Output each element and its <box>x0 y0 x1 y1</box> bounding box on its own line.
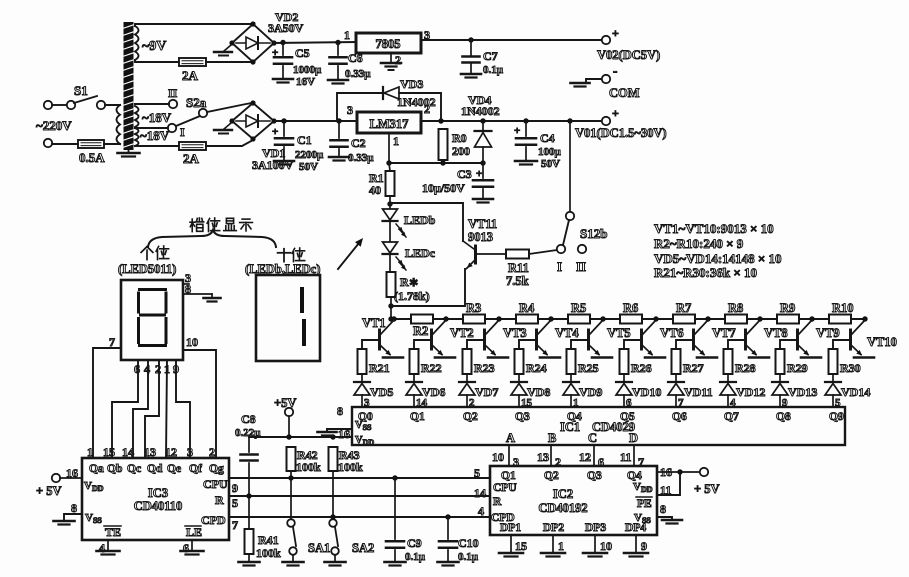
svg-text:6: 6 <box>183 541 189 555</box>
resistor R11 7.5k <box>506 250 529 259</box>
7-segment display DS2 <box>256 275 320 361</box>
transistor VT6 <box>640 330 643 349</box>
svg-text:B: B <box>548 431 556 445</box>
switch SA1 <box>287 519 295 527</box>
IC IC3 CD40110 <box>82 458 229 540</box>
transistor VT4 <box>535 330 538 349</box>
svg-text:13: 13 <box>537 450 549 464</box>
svg-text:Q9: Q9 <box>829 411 844 423</box>
diode VD14 <box>832 374 834 382</box>
svg-text:VT1~VT10:9013 × 10: VT1~VT10:9013 × 10 <box>654 221 774 236</box>
svg-text:50V: 50V <box>541 158 560 170</box>
node rail 8 <box>809 316 814 321</box>
svg-text:R∗: R∗ <box>400 275 419 289</box>
svg-text:1000μ: 1000μ <box>293 64 322 76</box>
svg-text:7: 7 <box>232 518 238 532</box>
svg-text:+: + <box>612 106 619 120</box>
wire A to IC2 <box>508 445 510 466</box>
svg-text:Qd: Qd <box>147 463 163 475</box>
capacitor C7 0.1u <box>470 40 472 55</box>
svg-text:DP4: DP4 <box>625 522 646 534</box>
svg-text:~18V: ~18V <box>142 110 172 125</box>
node <box>330 434 335 439</box>
svg-text:11: 11 <box>620 450 631 464</box>
node <box>388 316 393 321</box>
svg-text:+ 5V: + 5V <box>694 482 720 496</box>
node rail 9 <box>862 316 867 321</box>
regulator U1 7805 <box>356 33 421 53</box>
resistor R2 on rail <box>411 315 433 324</box>
svg-text:R27: R27 <box>683 361 704 375</box>
switch contact I <box>168 124 176 132</box>
node <box>389 196 391 204</box>
svg-text:Q1: Q1 <box>410 411 425 423</box>
resistor R24 <box>515 349 524 374</box>
svg-text:VT2: VT2 <box>450 326 474 340</box>
svg-text:~18V: ~18V <box>140 128 170 143</box>
svg-text:7: 7 <box>109 335 115 349</box>
svg-text:2200μ: 2200μ <box>295 149 324 161</box>
transistor VT2 <box>430 330 433 349</box>
transistor VT7 <box>692 330 695 349</box>
svg-text:R28: R28 <box>735 361 756 375</box>
svg-text:VT3: VT3 <box>503 326 527 340</box>
svg-text:4: 4 <box>478 504 484 518</box>
svg-text:Q3: Q3 <box>515 411 530 423</box>
svg-text:1: 1 <box>87 445 93 459</box>
node <box>567 118 572 123</box>
minus bar at VD1 <box>224 123 231 129</box>
terminal COM - <box>602 75 610 83</box>
svg-text:CPU: CPU <box>203 477 228 491</box>
svg-text:R22: R22 <box>421 361 442 375</box>
svg-text:100k: 100k <box>338 460 363 474</box>
svg-text:DP2: DP2 <box>543 522 564 534</box>
svg-text:0.22μ: 0.22μ <box>235 427 261 439</box>
label shi-wei (tens) <box>278 252 291 254</box>
svg-text:6: 6 <box>134 362 140 376</box>
svg-text:0.1μ: 0.1μ <box>483 64 504 76</box>
capacitor C4 100u/50V <box>525 121 527 136</box>
svg-text:V01(DC1.5~30V): V01(DC1.5~30V) <box>575 126 667 140</box>
svg-text:S2a: S2a <box>186 95 207 110</box>
svg-text:Q1: Q1 <box>501 470 516 482</box>
wire C to IC2 <box>593 445 595 466</box>
svg-text:~9V: ~9V <box>142 39 166 54</box>
svg-text:I: I <box>557 259 562 274</box>
svg-text:VD9: VD9 <box>579 385 602 399</box>
wire to S12b <box>529 250 557 254</box>
svg-text:14: 14 <box>122 445 134 459</box>
minus bar at VD2 <box>224 45 231 51</box>
svg-text:V02(DC5V): V02(DC5V) <box>597 48 660 62</box>
resistor R30 <box>829 349 838 374</box>
diode VD6 <box>413 374 415 382</box>
transformer secondary ~9V winding <box>135 26 139 60</box>
resistor R10 on rail <box>829 315 851 324</box>
wire CPU bus <box>229 477 490 479</box>
wire seg pin to IC3 pin 12 <box>166 360 167 458</box>
resistor R22 <box>410 349 419 374</box>
ground (transformer) <box>128 150 130 153</box>
svg-text:Q3: Q3 <box>587 470 602 482</box>
svg-text:SA2: SA2 <box>352 541 374 555</box>
AC input terminal upper <box>44 101 52 109</box>
svg-text:Q7: Q7 <box>724 411 739 423</box>
svg-text:4: 4 <box>99 541 105 555</box>
switch contact II <box>169 100 177 108</box>
IC2 DP1 pin 15 ground <box>510 535 512 553</box>
svg-text:I: I <box>180 125 185 139</box>
node <box>480 160 485 165</box>
switch S2a <box>199 109 207 117</box>
node rail 5 <box>653 316 658 321</box>
svg-text:8: 8 <box>660 502 666 516</box>
svg-text:VT5: VT5 <box>607 326 631 340</box>
svg-text:R29: R29 <box>787 361 808 375</box>
svg-text:VD12: VD12 <box>736 385 765 399</box>
svg-text:-: - <box>613 63 617 78</box>
svg-text:Qe: Qe <box>167 463 181 475</box>
svg-text:II: II <box>576 259 586 274</box>
svg-text:Q6: Q6 <box>672 411 687 423</box>
diode VD8 <box>518 374 520 382</box>
wire LM317 output <box>421 120 602 122</box>
transistor VT5 <box>587 330 590 349</box>
svg-text:R2~R10:240 × 9: R2~R10:240 × 9 <box>654 236 744 251</box>
svg-text:II: II <box>168 86 178 100</box>
capacitor C9 0.1u <box>392 475 397 480</box>
switch S1 <box>67 101 75 109</box>
pin 7 wire of DS1 <box>93 348 121 458</box>
svg-text:10: 10 <box>186 335 198 349</box>
pin 3 of DS1 <box>183 283 189 285</box>
node rail 0 <box>391 316 396 321</box>
svg-text:R5: R5 <box>571 301 586 315</box>
svg-text:R2: R2 <box>413 324 428 338</box>
svg-text:10: 10 <box>492 450 504 464</box>
fuse 2A (lower) <box>179 142 206 150</box>
svg-text:15: 15 <box>103 445 115 459</box>
IC2 DP3 pin 10 ground <box>594 535 596 553</box>
svg-text:+: + <box>272 126 278 138</box>
resistor R9 on rail <box>777 315 799 324</box>
resistor R0 200 <box>439 129 448 160</box>
svg-text:Q5: Q5 <box>620 411 635 423</box>
resistor R28 <box>724 349 733 374</box>
node <box>335 40 340 45</box>
terminal V01 + <box>602 117 610 125</box>
svg-text:Qb: Qb <box>107 463 122 475</box>
svg-text:10: 10 <box>600 539 612 553</box>
wire 5V output <box>421 39 602 41</box>
capacitor C6 0.33u <box>337 42 339 55</box>
svg-text:VD14: VD14 <box>841 385 870 399</box>
svg-text:Q8: Q8 <box>776 411 791 423</box>
transistor VT9 <box>796 330 799 349</box>
fuse 2A (upper) <box>179 58 206 66</box>
capacitor C10 0.1u <box>445 514 450 519</box>
svg-text:D: D <box>629 431 638 445</box>
svg-text:R9: R9 <box>780 301 795 315</box>
resistor R* <box>387 272 396 297</box>
svg-text:0.5A: 0.5A <box>79 150 105 165</box>
svg-text:R0: R0 <box>452 131 467 145</box>
svg-text:Q2: Q2 <box>544 470 559 482</box>
wire R bus <box>229 495 490 497</box>
svg-text:100μ: 100μ <box>538 146 562 158</box>
pin 2 ground of 7805 <box>390 53 392 62</box>
node <box>468 37 473 42</box>
svg-text:R11: R11 <box>508 261 529 275</box>
svg-text:LM317: LM317 <box>370 117 409 131</box>
resistor R26 <box>620 349 629 374</box>
svg-text:0.33μ: 0.33μ <box>348 152 374 164</box>
transformer primary winding <box>117 105 121 144</box>
svg-text:SA1: SA1 <box>308 541 330 555</box>
diode VD7 <box>466 374 468 382</box>
pin 8 of DS1 to ground <box>183 293 212 295</box>
diode VD4 1N4002 <box>482 121 484 131</box>
svg-text:16V: 16V <box>296 76 315 88</box>
node <box>440 160 445 165</box>
svg-text:R3: R3 <box>466 301 481 315</box>
svg-text:VD3: VD3 <box>400 77 423 91</box>
+5V terminal for IC3 <box>52 474 60 482</box>
svg-text:LEDc: LEDc <box>405 246 436 260</box>
svg-text:3A50V: 3A50V <box>268 21 304 35</box>
capacitor C1 2200u/50V <box>283 121 285 136</box>
node rail 4 <box>600 316 605 321</box>
resistor R25 <box>567 349 576 374</box>
svg-text:VT1: VT1 <box>362 316 386 330</box>
svg-text:200: 200 <box>452 144 470 158</box>
wire <box>52 143 78 145</box>
arrow pointer <box>338 243 359 269</box>
svg-text:12: 12 <box>579 450 591 464</box>
wire seg pin to IC3 pin 15 <box>112 360 138 458</box>
node <box>523 118 528 123</box>
svg-text:5: 5 <box>474 466 480 480</box>
pin 1 of LM317 (adj) <box>388 133 390 163</box>
svg-text:CD40110: CD40110 <box>134 499 183 513</box>
svg-text:+: + <box>514 125 520 137</box>
svg-text:VT10: VT10 <box>867 335 897 349</box>
IC2 DP2 pin 1 ground <box>552 535 554 553</box>
svg-text:13: 13 <box>144 445 156 459</box>
resistor R23 <box>463 349 472 374</box>
pin 10 wire of DS1 <box>183 350 216 458</box>
wire CPD bus <box>229 516 490 518</box>
svg-text:+: + <box>612 26 619 40</box>
resistor R42 100k <box>287 447 296 471</box>
svg-text:R30: R30 <box>840 361 861 375</box>
wire adj line <box>389 162 483 164</box>
svg-text:9: 9 <box>641 539 647 553</box>
diode VD3 1N4002 <box>337 93 383 121</box>
resistor R41 100k <box>245 529 254 554</box>
svg-text:+: + <box>476 168 482 180</box>
svg-text:S12b: S12b <box>580 226 607 241</box>
node rail 7 <box>757 316 762 321</box>
svg-text:15: 15 <box>515 539 527 553</box>
svg-text:R4: R4 <box>519 301 535 315</box>
wire <box>105 104 120 106</box>
7-segment display DS1 <box>121 280 183 360</box>
svg-text:COM: COM <box>609 86 640 100</box>
node <box>281 118 286 123</box>
svg-text:R21~R30:36k × 10: R21~R30:36k × 10 <box>654 265 757 280</box>
transistor VT8 <box>744 330 747 349</box>
svg-text:2A: 2A <box>182 68 199 83</box>
LED LEDc <box>383 242 398 253</box>
wire seg pin to IC3 pin 3 <box>176 360 190 458</box>
svg-text:5: 5 <box>232 496 238 510</box>
svg-text:C5: C5 <box>295 46 310 60</box>
svg-text:DP1: DP1 <box>500 522 521 534</box>
svg-text:7805: 7805 <box>376 37 401 51</box>
svg-text:1N4002: 1N4002 <box>397 95 436 109</box>
wire <box>135 127 168 129</box>
node <box>386 160 391 165</box>
svg-text:~220V: ~220V <box>36 118 72 133</box>
resistor R4 on rail <box>516 315 538 324</box>
LED LEDb <box>389 204 391 209</box>
svg-text:12: 12 <box>165 445 177 459</box>
node rail 6 <box>705 316 710 321</box>
diode VD11 <box>675 374 677 382</box>
svg-text:TE: TE <box>105 525 121 539</box>
bridge rectifier VD2 <box>232 24 274 62</box>
resistor R5 on rail <box>568 315 590 324</box>
resistor R29 <box>776 349 785 374</box>
svg-text:CD40192: CD40192 <box>538 501 587 515</box>
svg-text:(LED5011): (LED5011) <box>118 262 176 276</box>
svg-text:R8: R8 <box>728 301 743 315</box>
svg-text:R21: R21 <box>369 361 390 375</box>
svg-text:C4: C4 <box>540 131 555 145</box>
wire 18V return <box>135 145 179 147</box>
transformer secondary ~18V winding 2 <box>135 128 139 146</box>
resistor R8 on rail <box>725 315 747 324</box>
node <box>438 118 443 123</box>
wire S2a to VD1 <box>207 103 252 112</box>
svg-text:PE: PE <box>637 498 652 510</box>
svg-text:R6: R6 <box>623 301 638 315</box>
diode VD13 <box>779 374 781 382</box>
svg-text:0.1μ: 0.1μ <box>405 551 426 563</box>
IC IC1 CD4029 <box>352 407 845 445</box>
wire to VD2 top <box>135 24 251 26</box>
node <box>336 118 341 123</box>
svg-text:C9: C9 <box>407 536 422 550</box>
diode VD10 <box>623 374 625 382</box>
svg-text:C2: C2 <box>351 136 366 150</box>
node rail 1 <box>443 316 448 321</box>
svg-text:2: 2 <box>395 53 401 67</box>
resistor R27 <box>672 349 681 374</box>
svg-text:2: 2 <box>209 445 215 459</box>
svg-text:9: 9 <box>232 481 238 495</box>
svg-text:2: 2 <box>155 362 161 376</box>
wire <box>52 104 66 106</box>
wire VT11 emitter return <box>391 269 465 306</box>
terminal V02 + <box>602 36 610 44</box>
wire <box>390 297 392 319</box>
node rail 2 <box>496 316 501 321</box>
resistor R1 40 <box>389 163 390 171</box>
capacitor C3 10u/50V <box>482 163 484 178</box>
node <box>288 475 293 480</box>
svg-text:2A: 2A <box>183 151 200 166</box>
svg-text:40: 40 <box>369 183 381 197</box>
resistor R6 on rail <box>620 315 642 324</box>
wire 9V return to fuse <box>135 60 179 62</box>
svg-text:VT11: VT11 <box>468 217 497 231</box>
svg-text:100k: 100k <box>296 460 321 474</box>
wire <box>104 143 120 145</box>
svg-text:7.5k: 7.5k <box>506 274 529 288</box>
IC2 DP4 pin 9 ground <box>635 535 637 553</box>
svg-text:VD5~VD14:14148 × 10: VD5~VD14:14148 × 10 <box>654 251 782 266</box>
wire collector rail <box>391 318 865 320</box>
svg-text:14: 14 <box>474 486 486 500</box>
COM ground <box>586 79 601 83</box>
svg-text:8: 8 <box>337 404 343 418</box>
svg-text:Qg: Qg <box>209 463 224 475</box>
svg-text:R: R <box>493 496 502 508</box>
svg-text:R25: R25 <box>578 361 599 375</box>
svg-text:0.1μ: 0.1μ <box>458 551 479 563</box>
svg-text:VD5: VD5 <box>370 385 393 399</box>
+5V rail <box>249 436 352 438</box>
svg-text:R23: R23 <box>474 361 495 375</box>
svg-text:CPD: CPD <box>201 513 226 527</box>
node <box>330 514 335 519</box>
svg-text:VT6: VT6 <box>660 326 684 340</box>
wire <box>206 140 253 146</box>
svg-text:R: R <box>215 493 224 507</box>
svg-text:R24: R24 <box>526 361 547 375</box>
svg-text:Qa: Qa <box>89 463 104 475</box>
wire D to IC2 <box>633 445 635 466</box>
svg-text:R41: R41 <box>258 533 279 547</box>
svg-text:50V: 50V <box>299 161 318 173</box>
regulator U2 LM317 <box>357 112 421 133</box>
transistor VT11 9013 <box>463 241 474 249</box>
svg-text:VT8: VT8 <box>764 326 788 340</box>
svg-text:C3: C3 <box>457 167 472 181</box>
svg-text:C8: C8 <box>241 412 256 426</box>
resistor R21 <box>358 349 367 374</box>
transformer secondary ~18V winding 1 <box>135 106 139 127</box>
svg-text:A: A <box>506 431 515 445</box>
transistor VT10 <box>849 330 852 349</box>
label dang-wei-xian-shi <box>191 219 193 232</box>
svg-text:VD13: VD13 <box>788 385 817 399</box>
wire <box>206 61 253 63</box>
svg-text:VT7: VT7 <box>712 326 736 340</box>
svg-text:8: 8 <box>185 282 191 296</box>
node <box>480 118 485 123</box>
svg-text:CPU: CPU <box>493 482 517 494</box>
svg-text:DP3: DP3 <box>585 522 606 534</box>
svg-text:(1.78k): (1.78k) <box>394 289 430 303</box>
svg-text:1: 1 <box>393 134 399 148</box>
resistor R3 on rail <box>463 315 485 324</box>
diode VD9 <box>570 374 572 382</box>
bridge rectifier VD1 <box>232 103 274 139</box>
